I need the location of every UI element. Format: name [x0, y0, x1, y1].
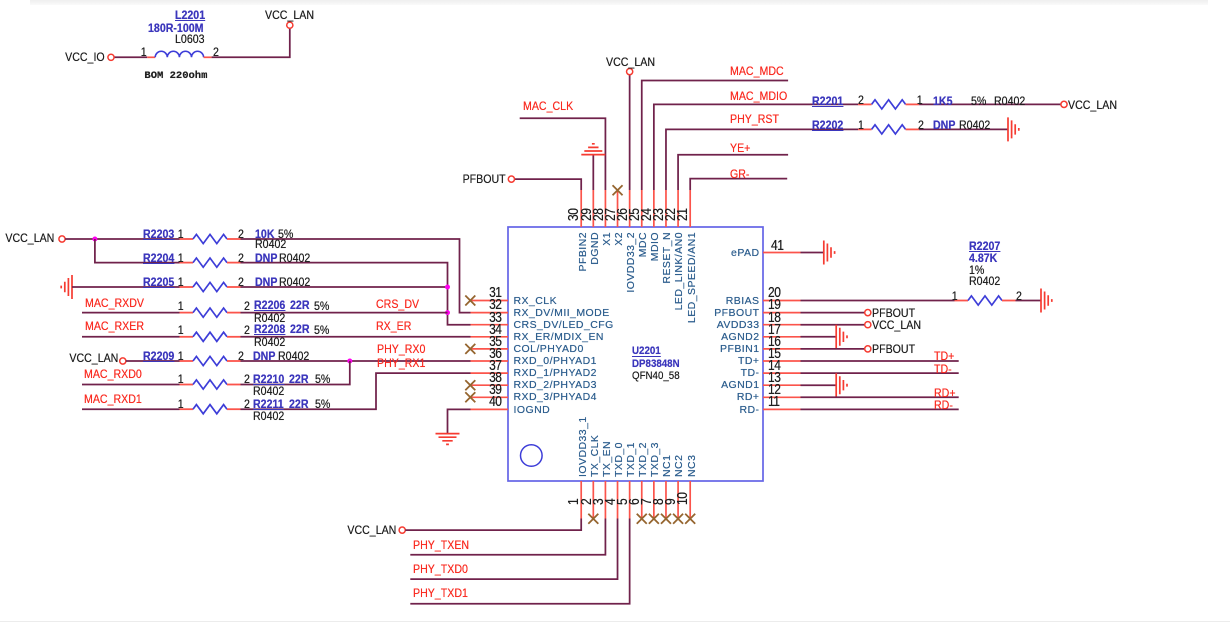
- pin number 10 (bottom): [675, 493, 690, 505]
- net label RX_ER: [376, 320, 411, 332]
- wire RBIAS to R2207 pin 1: [801, 300, 955, 302]
- ground AGND1: [836, 373, 847, 397]
- pin number 8 (bottom): [651, 499, 666, 505]
- net label PHY_RX0: [377, 343, 425, 355]
- net label PHY_TXEN: [413, 539, 469, 551]
- wire R2211 pin 2 up to pin 37: [241, 373, 471, 409]
- pin 23 stub (RESET_N): [665, 190, 667, 227]
- net label TD+: [934, 350, 954, 362]
- pin 15 stub (TD+): [763, 360, 801, 362]
- pin number 16: [768, 334, 780, 349]
- wire DGND stem pin 29: [592, 155, 594, 190]
- refdes L2201: [175, 9, 205, 21]
- pin name TD+ (pin 15): [738, 356, 759, 367]
- net label YE+: [730, 142, 750, 154]
- net label PHY_RST: [730, 113, 779, 125]
- ground IOGND: [436, 434, 460, 445]
- port VCC_LAN (top center): [627, 69, 633, 75]
- pin name RD+ (pin 12): [737, 392, 760, 403]
- pin 31 stub (RX_CLK): [471, 300, 509, 302]
- R2206 pin 2 number: [244, 300, 250, 312]
- R2209 pin 2 number: [238, 350, 244, 362]
- R2206 pin 1 number: [178, 300, 184, 312]
- value 5% (R2203): [278, 228, 293, 240]
- resistor R2207 4.87K: [955, 300, 969, 302]
- wire pin 16 PFBIN1 to PFBOUT port: [801, 348, 865, 350]
- ground AGND2: [836, 325, 847, 349]
- value 22R (R2211): [289, 398, 308, 410]
- label VCC_LAN (bottom): [347, 524, 396, 536]
- pin number 14: [768, 358, 780, 373]
- pin number 29 (top): [579, 209, 594, 221]
- R2201 pin 2 number: [858, 94, 864, 106]
- pin number 39: [489, 382, 501, 397]
- value 10K: [255, 228, 274, 240]
- pin number 9 (bottom): [663, 499, 678, 505]
- R2207 pin 1 number: [952, 290, 958, 302]
- value R0402 (R2203): [255, 238, 286, 250]
- no-connect X pin 31: [465, 296, 475, 306]
- wire R2202 pin 2 to ground: [919, 128, 1008, 130]
- no-connect X pin 38: [465, 380, 475, 390]
- pin 41 stub (ePAD): [763, 252, 801, 254]
- pin name RX_DV/MII_MODE (pin 32): [514, 308, 610, 319]
- refdes R2205: [143, 276, 174, 288]
- label VCC_LAN (right of R2201): [1068, 99, 1117, 111]
- net label MAC_RXDV: [85, 297, 144, 309]
- pin name IOGND (pin 40): [514, 405, 551, 416]
- pin number 36: [489, 346, 501, 361]
- net label PHY_TXD0: [413, 563, 468, 575]
- pin name COL/PHYAD0 (pin 35): [514, 344, 584, 355]
- label VCC_LAN (pin 18): [872, 319, 921, 331]
- wire ground to R2205 pin 1: [72, 286, 180, 288]
- pin number 34: [489, 322, 501, 337]
- net label TD-: [934, 363, 952, 375]
- wire R2209 pin 2 (PHY_RX0) to pin 36: [241, 360, 471, 362]
- pin 24 stub (MDIO): [653, 190, 655, 227]
- wire R2207 pin 2 to ground: [1016, 300, 1041, 302]
- value 5% (R2211): [315, 398, 330, 410]
- wire VCC_LAN to pin 26 IOVDD33_2: [629, 75, 631, 190]
- wire branch to R2204 pin 1: [95, 239, 180, 263]
- refdes R2208: [254, 323, 285, 335]
- resistor R2202 DNP: [858, 128, 872, 130]
- pin 12 stub (RD+): [763, 396, 801, 398]
- refdes R2202: [812, 119, 843, 131]
- wire ePAD to ground: [801, 252, 824, 254]
- net label MAC_RXD1: [84, 393, 142, 405]
- R2205 pin 2 number: [238, 276, 244, 288]
- wire PFBOUT to pin 30: [515, 179, 582, 190]
- label PFBOUT (pin 16): [872, 343, 915, 355]
- R2208 pin 1 number: [178, 324, 184, 336]
- pin number 21 (top): [675, 209, 690, 221]
- value 5% (R2210): [315, 373, 330, 385]
- value 1% (R2207): [969, 264, 984, 276]
- port VCC_IO: [108, 54, 114, 60]
- resistor R2203 10K: [180, 238, 194, 240]
- pin 9 stub (NC2): [677, 481, 679, 519]
- value BOM 220ohm: [144, 71, 207, 82]
- wire R2208 pin 2 (RX_ER) to pin 34: [241, 336, 471, 338]
- pin name RD- (pin 11): [739, 405, 759, 416]
- refdes R2203: [143, 228, 174, 240]
- net label MAC_MDIO: [730, 90, 787, 102]
- junction CRS_DV net / R2204 vertical: [445, 310, 450, 315]
- ground ePAD: [824, 241, 835, 265]
- port VCC_LAN (top left): [287, 22, 293, 28]
- pin 6 stub (TXD_2): [641, 481, 643, 519]
- value R0402 (R2206): [254, 312, 285, 324]
- pin name PFBIN1 (pin 16): [720, 344, 759, 355]
- pin number 18: [768, 310, 780, 325]
- value R0402 (R2207): [969, 275, 1000, 287]
- pin number 3 (bottom): [591, 499, 606, 505]
- pin number 12: [768, 382, 780, 397]
- no-connect X pin 39: [465, 392, 475, 402]
- resistor R2210 22R: [180, 384, 194, 386]
- value DP83848N: [632, 359, 680, 370]
- wire pin 12 RD+ net: [801, 396, 959, 398]
- pin 28 stub (X1): [604, 190, 606, 227]
- pin 21 stub (LED_SPEED/AN1): [689, 190, 691, 227]
- no-connect X pin 6: [637, 514, 647, 524]
- no-connect X pin 35: [465, 344, 475, 354]
- wire R2204 pin 2 down to CRS_DV node: [241, 263, 471, 325]
- pin 35 stub (COL/PHYAD0): [471, 348, 509, 350]
- refdes R2204: [143, 252, 174, 264]
- value 180R-100M: [148, 22, 203, 34]
- no-connect X pin 7: [649, 514, 659, 524]
- pin name AGND1 (pin 13): [721, 380, 759, 391]
- resistor R2206 22R: [180, 312, 194, 314]
- pin number 30 (top): [566, 209, 581, 221]
- wire PHY_TXD1 to pin 5 TXD_1: [410, 519, 629, 604]
- pin 14 stub (TD-): [763, 372, 801, 374]
- pin 20 stub (RBIAS): [763, 300, 801, 302]
- pin 19 stub (PFBOUT): [763, 312, 801, 314]
- net label PHY_RX1: [377, 357, 425, 369]
- wire PHY_TXEN to pin 3 TX_EN: [410, 519, 605, 555]
- value R0402 (R2201): [994, 95, 1025, 107]
- R2210 pin 1 number: [178, 373, 184, 385]
- resistor R2201 1K5: [858, 103, 872, 105]
- IC U2201 DP83848N body outline: [508, 227, 763, 481]
- value R0402 (R2208): [254, 336, 285, 348]
- net label MAC_CLK: [523, 100, 573, 112]
- net label CRS_DV: [376, 298, 419, 310]
- junction PHY_RX0 / R2210 vertical: [347, 359, 352, 364]
- wire pin 19 PFBOUT to port: [801, 312, 865, 314]
- value R0402 (R2202): [959, 119, 990, 131]
- pin number 1 (bottom): [566, 499, 581, 505]
- pin number 35: [489, 334, 501, 349]
- pin 7 stub (TXD_3): [653, 481, 655, 519]
- wire R2203 pin 2 down to pin 32: [241, 239, 471, 313]
- L2201 pin 2 number: [213, 46, 219, 58]
- no-connect X pin 27 X2: [613, 185, 623, 195]
- pin name IOVDD33_1 (bottom): [578, 416, 589, 477]
- pin name PFBIN2 (top): [578, 232, 589, 271]
- pin name LED_SPEED/AN1 (top): [687, 232, 698, 323]
- wire GR- net to pin 21: [690, 179, 787, 190]
- port VCC_LAN (R2209): [120, 358, 126, 364]
- pin number 38: [489, 370, 501, 385]
- wire MAC_MDIO net to pin 24 / R2201 pin 2: [654, 104, 858, 190]
- pin number 41: [771, 238, 783, 253]
- pin 3 stub (TX_EN): [604, 481, 606, 519]
- wire VCC_IO port to L2201 pin 1: [114, 56, 147, 58]
- wire pin 14 TD- net: [801, 372, 959, 374]
- label VCC_LAN (top center): [606, 56, 655, 68]
- pin name RESET_N (top): [662, 232, 673, 284]
- value 22R (R2210): [289, 373, 308, 385]
- pin name DGND (top): [590, 232, 601, 265]
- value 5% (R2206): [314, 300, 329, 312]
- resistor R2209 DNP: [180, 360, 194, 362]
- value 22R (R2206): [290, 299, 309, 311]
- pin number 13: [768, 370, 780, 385]
- resistor R2211 22R: [180, 408, 194, 410]
- refdes R2207: [969, 240, 1000, 252]
- pin name MDC (top): [638, 232, 649, 257]
- wire pin 40 IOGND to ground: [448, 409, 471, 433]
- L2201 pin 1 number: [141, 46, 147, 58]
- port VCC_LAN (pin 18): [865, 322, 871, 328]
- pin name MDIO (top): [650, 232, 661, 261]
- pin 10 stub (NC3): [689, 481, 691, 519]
- pin number 6 (bottom): [627, 499, 642, 505]
- wire L2201 pin 2 to VCC_LAN: [212, 28, 290, 57]
- pin number 15: [768, 346, 780, 361]
- value L0603: [175, 33, 205, 45]
- pin 17 stub (AGND2): [763, 336, 801, 338]
- wire PHY_RST net to pin 23 / R2202 pin 1: [666, 129, 858, 190]
- pin name RXD_1/PHYAD2 (pin 37): [514, 368, 597, 379]
- pin 4 stub (TXD_0): [617, 481, 619, 519]
- wire VCC_LAN to R2203 pin 1: [65, 238, 179, 240]
- pin 1 stub (IOVDD33_1): [580, 481, 582, 519]
- wire R2201 pin 1 to VCC_LAN port: [919, 103, 1061, 105]
- resistor R2204 DNP: [180, 262, 194, 264]
- pin number 40: [489, 394, 501, 409]
- R2203 pin 2 number: [238, 228, 244, 240]
- R2203 pin 1 number: [178, 228, 184, 240]
- U2201 pin-1 index circle: [521, 445, 543, 467]
- value R0402 (R2204): [279, 252, 310, 264]
- no-connect X pin 8: [661, 514, 671, 524]
- value R0402 (R2211): [253, 410, 284, 422]
- wire R2206 pin 2 (CRS_DV) to node: [241, 312, 448, 314]
- wire pin 18 AVDD33 to VCC_LAN port: [801, 324, 865, 326]
- net label PHY_TXD1: [413, 587, 468, 599]
- no-connect X pin 10: [685, 514, 695, 524]
- pin name RX_CLK (pin 31): [514, 296, 558, 307]
- pin name NC3 (bottom): [687, 454, 698, 476]
- junction R2205 / CRS_DV vertical: [445, 285, 450, 290]
- pin 26 stub (IOVDD33_2): [629, 190, 631, 227]
- wire R2205 pin 2 to CRS_DV node: [241, 286, 448, 288]
- pin 25 stub (MDC): [641, 190, 643, 227]
- R2209 pin 1 number: [178, 350, 184, 362]
- pin name TXD_1 (bottom): [626, 442, 637, 477]
- pin name NC2 (bottom): [674, 454, 685, 476]
- R2207 pin 2 number: [1016, 290, 1022, 302]
- refdes R2209: [143, 350, 174, 362]
- value R0402 (R2205): [279, 276, 310, 288]
- port PFBOUT (top): [508, 176, 514, 182]
- junction VCC_LAN / R2204 branch: [92, 237, 97, 242]
- net label MAC_RXD0: [84, 368, 142, 380]
- label VCC_LAN (top left): [265, 9, 314, 21]
- pin name TD- (pin 14): [741, 368, 760, 379]
- value 5% (R2201): [971, 95, 986, 107]
- R2201 pin 1 number: [917, 94, 923, 106]
- pin 13 stub (AGND1): [763, 384, 801, 386]
- value 22R (R2208): [290, 323, 309, 335]
- pin name AGND2 (pin 17): [721, 332, 759, 343]
- pin name TXD_0 (bottom): [614, 442, 625, 477]
- port VCC_LAN (right of R2201): [1061, 101, 1067, 107]
- net label RD+: [934, 387, 956, 399]
- pin 30 stub (PFBIN2): [580, 190, 582, 227]
- ground DGND (pin 29): [581, 144, 605, 155]
- label VCC_IO: [65, 51, 105, 63]
- R2202 pin 1 number: [858, 119, 864, 131]
- inductor L2201: [147, 56, 155, 58]
- R2205 pin 1 number: [178, 276, 184, 288]
- pin name RX_ER/MDIX_EN (pin 34): [514, 332, 604, 343]
- pin 34 stub (RX_ER/MDIX_EN): [471, 336, 509, 338]
- R2211 pin 2 number: [244, 398, 250, 410]
- pin number 4 (bottom): [603, 499, 618, 505]
- pin number 17: [768, 322, 780, 337]
- pin 2 stub (TX_CLK): [592, 481, 594, 519]
- refdes R2206: [254, 299, 285, 311]
- wire PHY_TXD0 to pin 4 TXD_0: [410, 519, 617, 580]
- ground at R2205: [61, 275, 72, 299]
- pin number 27 (top): [603, 209, 618, 221]
- value DNP (R2204): [255, 252, 277, 264]
- pin 27 stub (X2): [617, 190, 619, 227]
- pin name TX_CLK (bottom): [590, 434, 601, 476]
- pin number 31: [489, 285, 501, 300]
- R2210 pin 2 number: [244, 373, 250, 385]
- wire MAC_MDC net to pin 25: [642, 81, 788, 191]
- pin name TX_EN (bottom): [602, 440, 613, 476]
- port VCC_LAN (bottom): [399, 527, 405, 533]
- wire pin 13 AGND1 to ground: [801, 384, 837, 386]
- pin 22 stub (LED_LINK/AN0): [677, 190, 679, 227]
- pin name AVDD33 (pin 18): [717, 320, 760, 331]
- pin name RBIAS (pin 20): [726, 296, 760, 307]
- wire VCC_LAN to pin 1 IOVDD33_1: [405, 519, 581, 531]
- pin number 25 (top): [627, 209, 642, 221]
- pin name RXD_3/PHYAD4 (pin 39): [514, 392, 597, 403]
- pin 18 stub (AVDD33): [763, 324, 801, 326]
- value R0402 (R2210): [253, 385, 284, 397]
- port VCC_LAN (left bank): [59, 236, 65, 242]
- pin name IOVDD33_2 (top): [626, 232, 637, 293]
- pin 5 stub (TXD_1): [629, 481, 631, 519]
- wire pin 11 RD- net: [801, 408, 959, 410]
- pin name PFBOUT (pin 19): [714, 308, 759, 319]
- refdes R2210: [253, 373, 284, 385]
- wire pin 15 TD+ net: [801, 360, 959, 362]
- pin number 5 (bottom): [615, 499, 630, 505]
- pin 33 stub (CRS_DV/LED_CFG): [471, 324, 509, 326]
- pin 32 stub (RX_DV/MII_MODE): [471, 312, 509, 314]
- value DNP (R2209): [253, 350, 275, 362]
- ground at R2202: [1008, 117, 1019, 141]
- value 5% (R2208): [314, 324, 329, 336]
- label VCC_LAN (R2209): [69, 352, 118, 364]
- pin number 19: [768, 297, 780, 312]
- pin 39 stub (RXD_3/PHYAD4): [471, 396, 509, 398]
- label PFBOUT (top): [463, 173, 506, 185]
- pin name RXD_0/PHYAD1 (pin 36): [514, 356, 597, 367]
- net label MAC_MDC: [730, 65, 784, 77]
- pin number 28 (top): [591, 209, 606, 221]
- pin name RXD_2/PHYAD3 (pin 38): [514, 380, 597, 391]
- value 4.87K: [969, 252, 997, 264]
- value 1K5: [933, 95, 952, 107]
- wire VCC_LAN to R2209 pin 1: [126, 360, 180, 362]
- wire MAC_RXD0 to R2210 pin 1: [82, 384, 180, 386]
- value R0402 (R2209): [278, 350, 309, 362]
- pin 29 stub (DGND): [592, 190, 594, 227]
- pin name TXD_2 (bottom): [638, 442, 649, 477]
- net label MAC_RXER: [85, 320, 144, 332]
- wire YE+ net to pin 22: [678, 155, 788, 190]
- refdes R2201: [812, 95, 843, 107]
- pin number 22 (top): [663, 209, 678, 221]
- pin name CRS_DV/LED_CFG (pin 33): [514, 320, 614, 331]
- label VCC_LAN (left bank): [5, 232, 54, 244]
- value QFN40_58: [632, 371, 680, 382]
- pin name NC1 (bottom): [662, 454, 673, 476]
- resistor R2205 DNP: [180, 286, 194, 288]
- pin 37 stub (RXD_1/PHYAD2): [471, 372, 509, 374]
- pin 38 stub (RXD_2/PHYAD3): [471, 384, 509, 386]
- pin name ePAD (pin 41): [731, 248, 759, 259]
- no-connect X pin 2: [588, 514, 598, 524]
- wire R2210 pin 2 up to PHY_RX0 node: [241, 361, 350, 385]
- R2211 pin 1 number: [178, 398, 184, 410]
- wire MAC_CLK net to pin 28 X1: [520, 118, 606, 190]
- value DNP (R2202): [933, 119, 955, 131]
- wire MAC_RXD1 to R2211 pin 1: [82, 408, 180, 410]
- net label RD-: [934, 399, 953, 411]
- refdes R2211: [253, 398, 284, 410]
- port PFBOUT (pin 16): [865, 346, 871, 352]
- R2208 pin 2 number: [244, 324, 250, 336]
- pin 16 stub (PFBIN1): [763, 348, 801, 350]
- wire MAC_RXDV to R2206 pin 1: [82, 312, 180, 314]
- pin number 23 (top): [651, 209, 666, 221]
- pin number 7 (bottom): [639, 499, 654, 505]
- pin number 32: [489, 297, 501, 312]
- pin name X1 (top): [602, 232, 613, 246]
- page top edge shading: [30, 0, 1208, 5]
- value DNP (R2205): [255, 276, 277, 288]
- resistor R2208 22R: [180, 336, 194, 338]
- pin number 26 (top): [615, 209, 630, 221]
- page bottom edge line: [0, 621, 1230, 622]
- R2204 pin 2 number: [238, 252, 244, 264]
- pin 40 stub (IOGND): [471, 408, 509, 410]
